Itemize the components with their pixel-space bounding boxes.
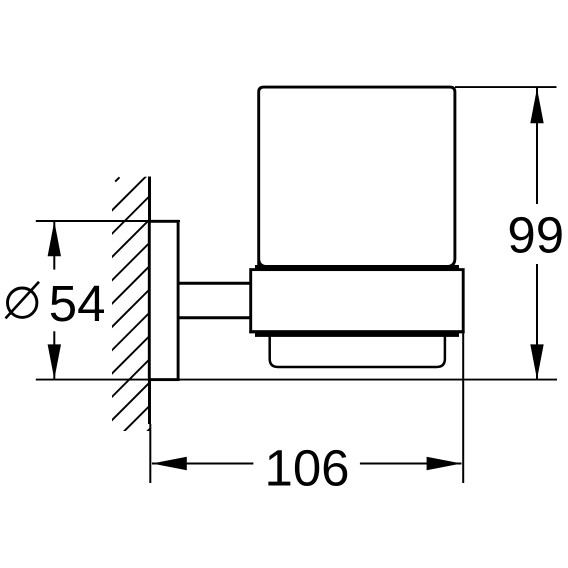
mounting arm bottom line bbox=[178, 316, 251, 319]
dimension 99 lower arrow bbox=[530, 344, 543, 379]
wall face line bbox=[148, 177, 151, 425]
dimension 99 top extension line bbox=[455, 86, 557, 88]
dimension 106 right arrow bbox=[427, 457, 462, 470]
svg-text:106: 106 bbox=[264, 439, 349, 496]
svg-text:99: 99 bbox=[507, 207, 564, 264]
wall hatching top tick bbox=[115, 177, 119, 181]
dimension 99 line lower segment bbox=[536, 264, 538, 379]
glass bottom bbox=[270, 334, 445, 367]
holder top rim band bbox=[255, 265, 459, 270]
dimension Ø54 top extension line bbox=[36, 220, 180, 222]
svg-text:54: 54 bbox=[49, 275, 106, 332]
holder bottom edge bbox=[249, 330, 464, 333]
dimension 106 left extension line bbox=[149, 424, 151, 483]
holder body bbox=[251, 270, 464, 332]
glass body bbox=[259, 87, 455, 266]
dimension Ø54 line upper segment bbox=[53, 221, 55, 270]
wall hatching bbox=[108, 172, 150, 470]
dimension Ø54 line lower segment bbox=[53, 331, 55, 379]
holder under-lip bbox=[255, 333, 459, 337]
dimension Ø54 label diameter symbol bbox=[8, 288, 37, 317]
dimension 99 upper arrow bbox=[530, 88, 543, 123]
dimension 106 line left segment bbox=[152, 463, 254, 465]
mounting arm top line bbox=[178, 282, 251, 285]
dimension 106 right extension line bbox=[462, 333, 464, 483]
dimension Ø54 upper arrow bbox=[48, 221, 61, 256]
dimension Ø54 lower arrow bbox=[48, 344, 61, 379]
wall plate bbox=[149, 221, 178, 379]
dimension 99 line upper segment bbox=[536, 88, 538, 204]
dimension 106 line right segment bbox=[360, 463, 462, 465]
dimension 106 left arrow bbox=[152, 457, 187, 470]
dimension Ø54 / 99 shared bottom extension line bbox=[36, 379, 557, 381]
